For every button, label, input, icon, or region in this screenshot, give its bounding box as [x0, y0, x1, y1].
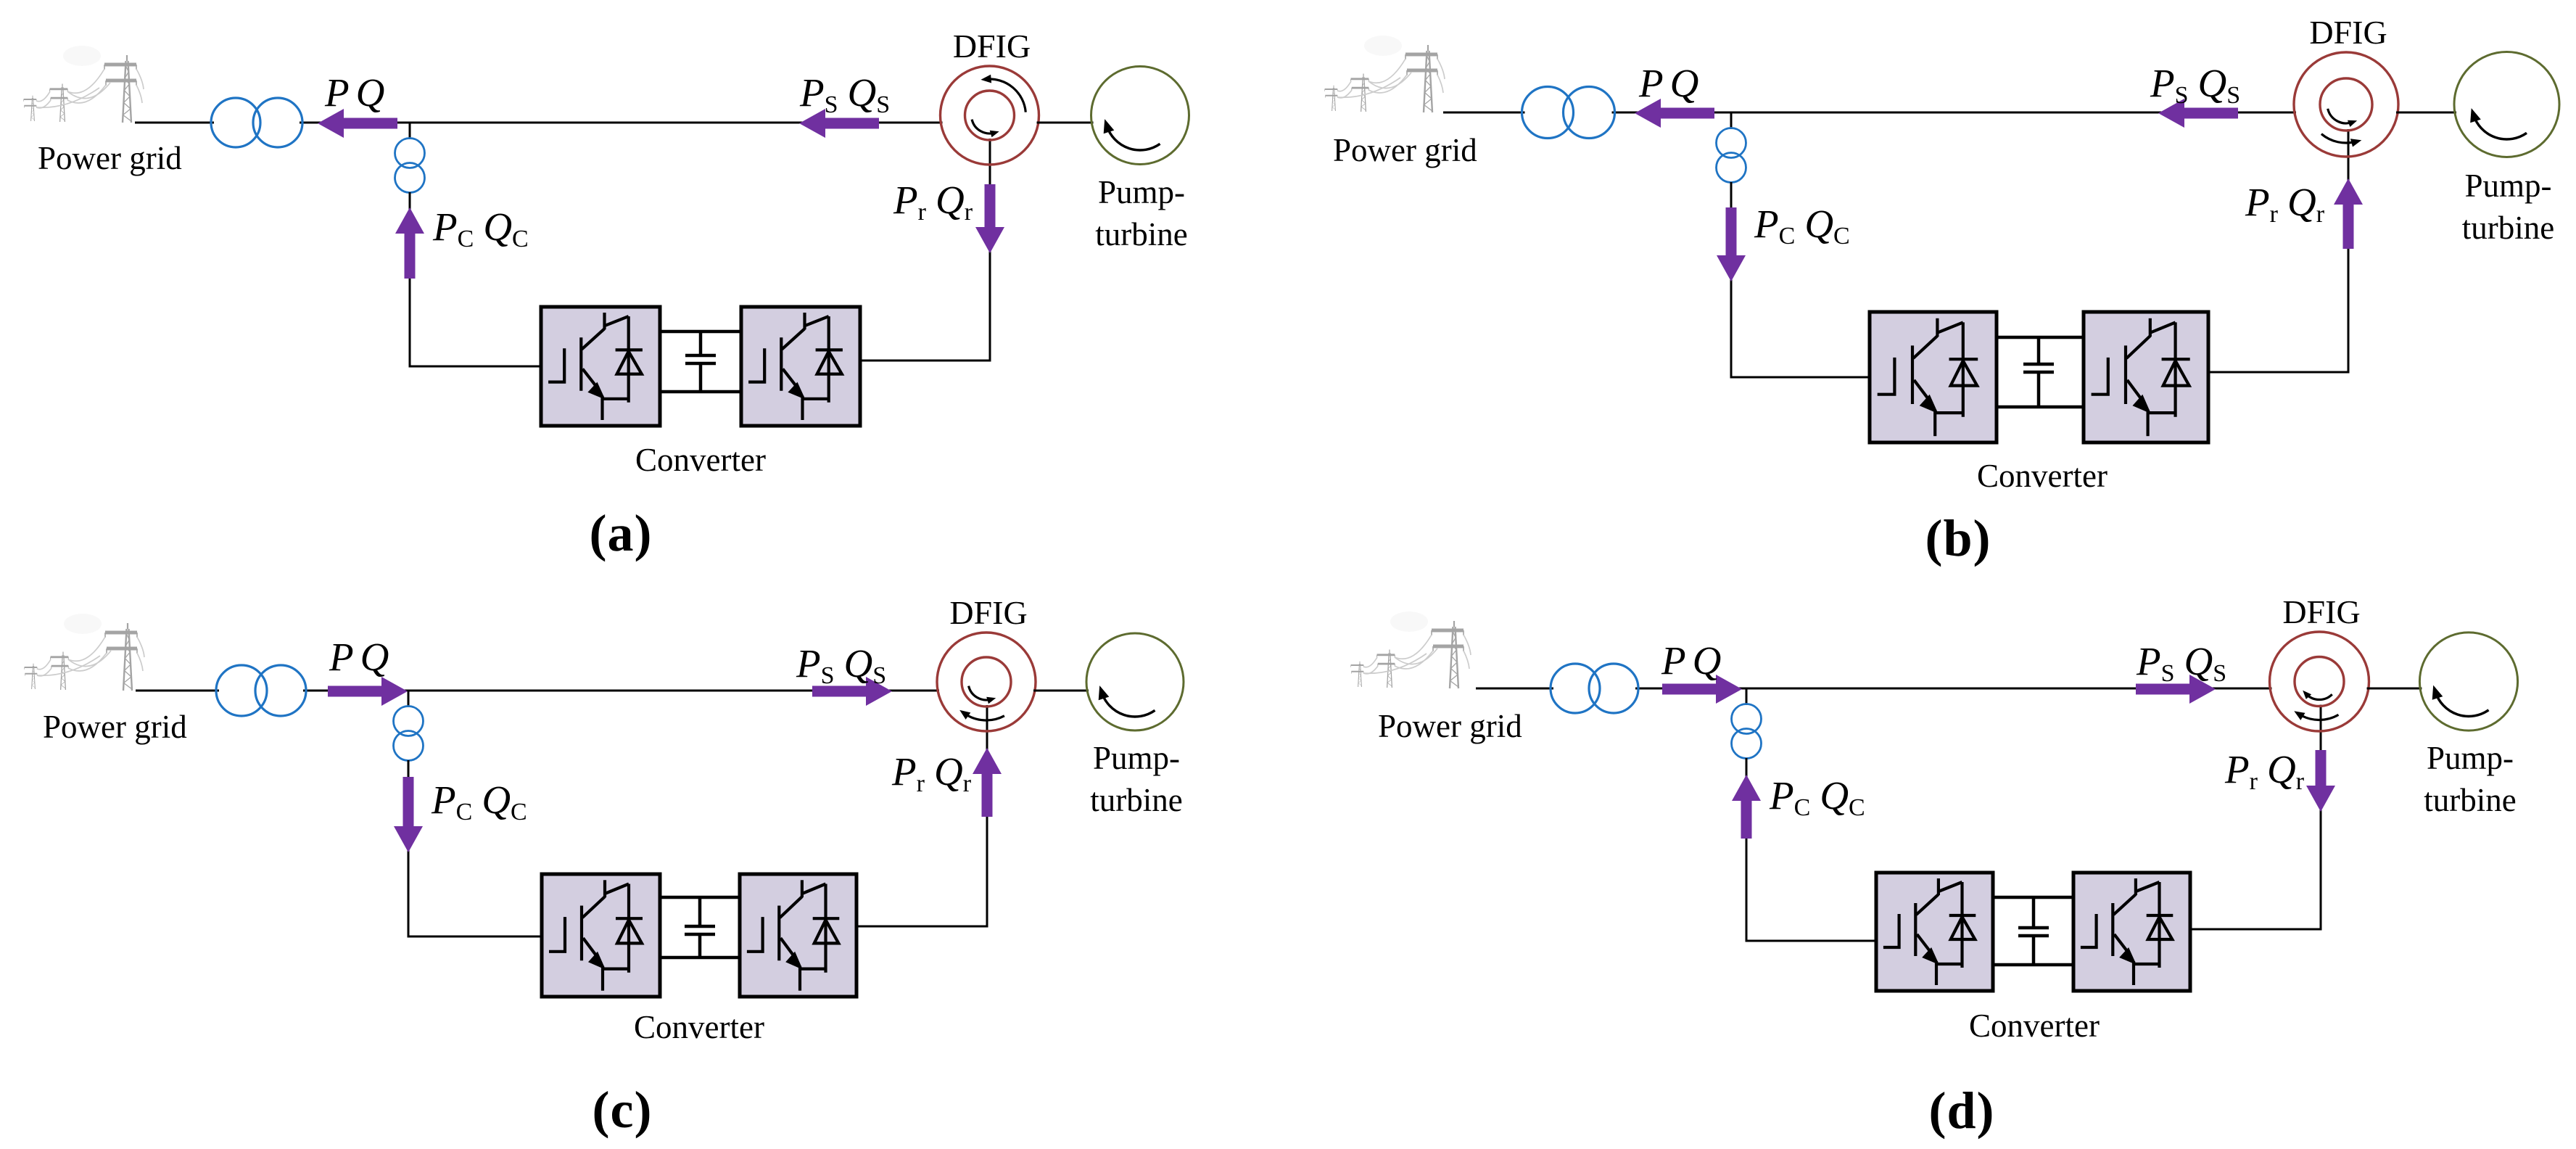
svg-text:Power grid: Power grid	[1378, 708, 1522, 744]
svg-text:PQ: PQ	[329, 635, 389, 679]
wire: shaft DFIG to pump-turbine (panel a)	[1037, 122, 1094, 124]
wire: coupling transformer to grid-side converter (panel c)	[408, 760, 542, 936]
wire: DC link bottom bus (panel d)	[1993, 963, 2073, 967]
DFIG rotor rotation arrow (panel c)	[969, 686, 996, 704]
svg-text:PC QC: PC QC	[432, 205, 529, 252]
svg-text:PC QC: PC QC	[1754, 202, 1850, 250]
converter rotor-side module (panel a)	[741, 307, 860, 426]
DFIG stator rotation arrow (panel d)	[2294, 711, 2338, 720]
svg-text:Power grid: Power grid	[1333, 132, 1477, 168]
svg-text:Pump-: Pump-	[2464, 168, 2551, 204]
wire: DC link top bus (panel b)	[1997, 336, 2084, 339]
DFIG machine symbol (panel a)	[941, 66, 1039, 165]
converter grid-side module (panel c)	[542, 874, 660, 997]
converter rotor-side module (panel b)	[2084, 312, 2208, 442]
arrow Pr Qr toward converter (panel a)	[975, 184, 1004, 253]
svg-text:(a): (a)	[590, 504, 653, 562]
capacitor DC link (panel a)	[685, 331, 716, 392]
pump-turbine rotation arrow (panel a)	[1104, 119, 1160, 150]
wire: coupling transformer to grid-side converter (panel d)	[1746, 758, 1876, 941]
svg-text:PS QS: PS QS	[2150, 61, 2240, 109]
power grid towers (panel d)	[1351, 611, 1471, 688]
arrow Ps Qs stator to grid (panel b)	[2158, 99, 2238, 128]
arrow Pr Qr toward DFIG rotor (panel b)	[2334, 178, 2363, 249]
transformer T1 grid step-up (panel a)	[211, 98, 302, 147]
svg-text:Power grid: Power grid	[43, 709, 187, 745]
svg-text:turbine: turbine	[1095, 216, 1187, 252]
DFIG rotor rotation arrow (panel a)	[972, 120, 999, 138]
power grid towers (panel a)	[24, 46, 144, 123]
wire: DC link bottom bus (panel c)	[660, 956, 740, 960]
arrow Pc Qc toward converter (panel c)	[394, 777, 423, 852]
arrow Pc Qc toward grid (panel a)	[395, 207, 424, 279]
wire: DC link top bus (panel d)	[1993, 896, 2073, 899]
svg-text:Pr Qr: Pr Qr	[2245, 180, 2325, 228]
svg-text:(b): (b)	[1925, 509, 1991, 567]
wire: coupling transformer to grid-side converter (panel a)	[410, 192, 541, 366]
pump-turbine rotation arrow (panel c)	[1099, 685, 1155, 717]
svg-text:Converter: Converter	[634, 1009, 764, 1045]
pump-turbine symbol (panel d)	[2419, 633, 2517, 730]
DFIG rotor rotation arrow (panel b)	[2328, 109, 2357, 127]
svg-text:DFIG: DFIG	[949, 594, 1027, 631]
power grid towers (panel b)	[1325, 36, 1445, 112]
svg-text:PC QC: PC QC	[431, 778, 527, 825]
svg-text:PQ: PQ	[1661, 638, 1721, 683]
converter grid-side module (panel a)	[541, 307, 660, 426]
svg-text:(d): (d)	[1928, 1082, 1994, 1140]
wire: DC link top bus (panel a)	[660, 330, 741, 334]
transformer T2 converter coupling (panel d)	[1732, 704, 1762, 759]
wire: transformer to DFIG stator bus (panel c)	[303, 690, 939, 692]
svg-text:Power grid: Power grid	[38, 140, 182, 176]
arrow Pc Qc toward grid (panel d)	[1732, 775, 1761, 839]
wire: rotor-side converter to DFIG rotor (panel c)	[856, 705, 987, 926]
wire: rotor-side converter to DFIG rotor (panel d)	[2190, 705, 2321, 930]
converter grid-side module (panel d)	[1876, 873, 1993, 991]
capacitor DC link (panel d)	[2018, 897, 2049, 965]
DFIG stator rotation arrow (panel b)	[2321, 134, 2361, 147]
arrow Ps Qs grid to stator (panel d)	[2136, 675, 2216, 704]
wire: shaft DFIG to pump-turbine (panel d)	[2367, 688, 2422, 690]
svg-text:Pr Qr: Pr Qr	[891, 749, 972, 797]
svg-text:PQ: PQ	[1638, 61, 1698, 105]
svg-text:turbine: turbine	[1090, 782, 1182, 818]
svg-text:PQ: PQ	[324, 70, 384, 115]
wire: grid to step-up transformer (panel d)	[1476, 688, 1553, 690]
arrow Pr Qr toward DFIG rotor (panel c)	[973, 748, 1002, 817]
converter rotor-side module (panel d)	[2073, 873, 2190, 991]
capacitor DC link (panel b)	[2023, 337, 2054, 407]
svg-text:PS QS: PS QS	[796, 641, 886, 689]
converter rotor-side module (panel c)	[740, 874, 856, 997]
DFIG stator rotation arrow (panel c)	[959, 710, 1004, 720]
DFIG machine symbol (panel b)	[2294, 52, 2398, 157]
transformer T1 grid step-up (panel b)	[1522, 87, 1615, 139]
wire: grid to step-up transformer (panel b)	[1443, 112, 1525, 114]
svg-text:Pump-: Pump-	[1093, 740, 1180, 776]
arrow Ps Qs stator to grid (panel a)	[799, 109, 879, 138]
arrow Ps Qs grid to stator (panel c)	[812, 677, 892, 706]
arrow Pr Qr toward converter (panel d)	[2306, 750, 2335, 812]
arrow Pc Qc toward converter (panel b)	[1717, 207, 1746, 281]
svg-text:DFIG: DFIG	[2309, 14, 2387, 51]
transformer T2 converter coupling (panel c)	[394, 707, 424, 761]
svg-text:DFIG: DFIG	[2282, 593, 2360, 630]
svg-text:Pump-: Pump-	[1098, 174, 1185, 210]
wire: transformer to DFIG stator bus (panel a)	[300, 122, 943, 124]
pump-turbine symbol (panel c)	[1086, 633, 1184, 730]
transformer T1 grid step-up (panel c)	[216, 665, 306, 716]
wire: coupling transformer to grid-side converter (panel b)	[1731, 182, 1870, 377]
transformer T2 converter coupling (panel b)	[1717, 128, 1746, 183]
svg-text:Converter: Converter	[1969, 1008, 2100, 1044]
svg-text:Pump-: Pump-	[2427, 740, 2514, 776]
converter grid-side module (panel b)	[1870, 312, 1997, 442]
node: converter branch junction (panel d)	[1746, 688, 1748, 705]
svg-text:PS QS: PS QS	[799, 70, 890, 118]
wire: grid to step-up transformer (panel a)	[135, 122, 214, 124]
wire: DC link top bus (panel c)	[660, 896, 740, 899]
DFIG machine symbol (panel d)	[2270, 632, 2369, 731]
svg-text:Pr Qr: Pr Qr	[2224, 747, 2305, 795]
wire: grid to step-up transformer (panel c)	[136, 690, 219, 692]
svg-text:Converter: Converter	[1977, 458, 2108, 494]
pump-turbine symbol (panel a)	[1091, 67, 1189, 165]
node: converter branch junction (panel c)	[408, 691, 410, 707]
svg-text:turbine: turbine	[2424, 782, 2516, 818]
wire: shaft DFIG to pump-turbine (panel c)	[1033, 690, 1089, 692]
svg-text:Converter: Converter	[635, 442, 766, 478]
DFIG rotor rotation arrow (panel d)	[2303, 691, 2332, 700]
DFIG machine symbol (panel c)	[937, 633, 1036, 731]
transformer T2 converter coupling (panel a)	[395, 139, 425, 193]
svg-text:DFIG: DFIG	[953, 28, 1031, 65]
wire: transformer to DFIG stator bus (panel d)	[1635, 688, 2272, 690]
wire: DC link bottom bus (panel b)	[1997, 405, 2084, 409]
pump-turbine rotation arrow (panel d)	[2432, 685, 2489, 717]
wire: rotor-side converter to DFIG rotor (panel b)	[2208, 129, 2348, 372]
wire: rotor-side converter to DFIG rotor (panel a)	[860, 139, 990, 361]
transformer T1 grid step-up (panel d)	[1551, 664, 1638, 713]
svg-text:PC QC: PC QC	[1769, 773, 1865, 821]
arrow P Q toward grid (panel a)	[318, 109, 397, 138]
node: converter branch junction (panel a)	[409, 123, 411, 139]
DFIG stator rotation arrow (panel a)	[981, 75, 1025, 112]
svg-text:Pr Qr: Pr Qr	[893, 178, 973, 226]
wire: DC link bottom bus (panel a)	[660, 390, 741, 394]
svg-text:(c): (c)	[593, 1081, 653, 1139]
arrow P Q from grid (panel d)	[1662, 675, 1742, 704]
power grid towers (panel c)	[25, 614, 144, 691]
wire: transformer to DFIG stator bus (panel b)	[1612, 112, 2297, 114]
svg-text:PS QS: PS QS	[2136, 639, 2226, 687]
capacitor DC link (panel c)	[685, 897, 715, 957]
pump-turbine symbol (panel b)	[2454, 52, 2559, 157]
svg-text:turbine: turbine	[2462, 210, 2554, 246]
arrow P Q toward grid (panel b)	[1635, 99, 1714, 128]
arrow P Q from grid (panel c)	[328, 677, 408, 706]
pump-turbine rotation arrow (panel b)	[2470, 108, 2527, 139]
wire: shaft DFIG to pump-turbine (panel b)	[2396, 112, 2456, 114]
node: converter branch junction (panel b)	[1730, 112, 1733, 129]
